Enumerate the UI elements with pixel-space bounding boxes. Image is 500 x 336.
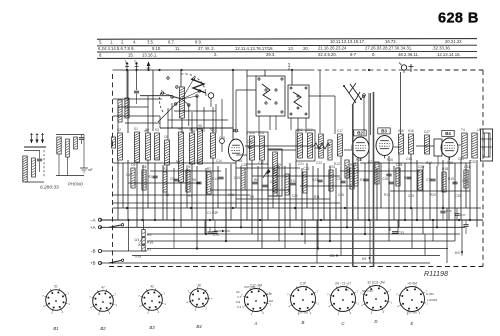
resistor R2 [131, 168, 135, 188]
wire aerial web3 [118, 106, 148, 108]
capacitor C37 [456, 208, 458, 213]
wire deep v10 [316, 220, 318, 263]
capacitor C30 [37, 158, 42, 160]
resistor R4 [163, 172, 167, 192]
coil S4 [155, 133, 160, 160]
socket base B3 [142, 290, 163, 311]
svg-text:29.3.: 29.3. [266, 52, 275, 57]
svg-text:C17: C17 [258, 161, 264, 165]
wire mesh h1 [113, 162, 236, 164]
wire osc coupling [245, 145, 314, 147]
resistor R17 [418, 170, 422, 190]
svg-text:C9: C9 [170, 177, 174, 181]
svg-text:B5: B5 [330, 254, 335, 258]
capacitor C9 [173, 178, 178, 180]
svg-text:11.: 11. [175, 46, 181, 51]
svg-text:16.72.: 16.72. [385, 39, 397, 44]
capacitor C34 [389, 227, 391, 231]
capacitor C25 [340, 180, 345, 182]
wire deep v12 [225, 208, 227, 241]
svg-text:C8: C8 [142, 165, 146, 169]
svg-text:C49: C49 [408, 194, 414, 198]
svg-text:C25: C25 [336, 177, 342, 181]
coil S2 [135, 132, 140, 162]
capacitor C21 [290, 182, 295, 184]
svg-text:R16: R16 [404, 176, 410, 180]
wire wafer drop [269, 116, 271, 130]
coil L30 [23, 156, 27, 182]
wire bus screen [113, 207, 482, 209]
svg-text:R4: R4 [188, 194, 192, 198]
svg-text:32 (C11–3M: 32 (C11–3M [367, 280, 385, 284]
svg-text:C6: C6 [131, 163, 135, 167]
wire b2 feed pair [370, 93, 372, 135]
coil S16 [409, 134, 414, 154]
wire wafer feed [246, 76, 248, 135]
svg-text:42: 42 [150, 285, 154, 289]
svg-text:··: ·· [150, 297, 152, 301]
svg-text:6.24.4.14.5.6.7.8 9.: 6.24.4.14.5.6.7.8 9. [98, 46, 135, 51]
wire mesh h4 [252, 175, 340, 177]
svg-text:R5: R5 [186, 165, 190, 169]
wire bottom corner drop [304, 220, 306, 244]
svg-text:C21: C21 [298, 162, 304, 166]
wire deep v2 [284, 220, 286, 249]
wire wafer3 drop2 [275, 116, 277, 130]
svg-text:S12: S12 [297, 128, 303, 132]
wire deep v1 [257, 220, 259, 241]
svg-text:A: A [254, 321, 258, 326]
svg-text:TUS: TUS [134, 255, 142, 259]
wire switch web7 [191, 112, 193, 133]
chassis border top dashed [420, 69, 483, 71]
svg-text:+2M: +2M [267, 299, 273, 303]
capacitor C23 [317, 179, 322, 181]
svg-text:C32: C32 [470, 160, 476, 164]
wire mesh h2 [150, 170, 221, 172]
svg-text:13.: 13. [288, 46, 294, 51]
wire mesh h5 [340, 170, 420, 172]
resistor R14 [345, 160, 349, 178]
svg-text:R7: R7 [207, 167, 211, 171]
coil volume track [273, 152, 278, 192]
svg-text:E: E [411, 321, 414, 326]
switch cross marker [410, 64, 412, 72]
svg-text:6-7: 6-7 [350, 52, 357, 57]
svg-text:C30: C30 [426, 178, 432, 182]
svg-text:6.280:33: 6.280:33 [40, 185, 59, 191]
svg-text:S16: S16 [408, 129, 414, 133]
wire adaptor dash [43, 150, 45, 178]
trimmer C4 [208, 93, 214, 99]
coil S9 [211, 133, 216, 158]
svg-text:S8: S8 [198, 124, 202, 128]
svg-text:C17: C17 [337, 129, 343, 133]
resistor R6 [186, 170, 190, 192]
wire bus +B [100, 262, 430, 264]
svg-text:C22: C22 [303, 167, 309, 171]
coil S17 [425, 135, 430, 154]
wire switch link [171, 103, 173, 128]
svg-text:−A: −A [90, 217, 96, 222]
wire bus h1 [147, 233, 460, 235]
wire deep v4 [340, 208, 342, 256]
capacitor C29 [406, 176, 411, 178]
resistor R11 [303, 172, 307, 193]
wire switch web1 [160, 127, 233, 129]
svg-text:R20: R20 [430, 193, 436, 197]
svg-text:S6: S6 [178, 127, 182, 131]
svg-text:6.9: 6.9 [236, 300, 241, 304]
svg-text:C28: C28 [396, 163, 402, 167]
resistor R10 [285, 174, 289, 195]
svg-text:··: ·· [197, 295, 199, 299]
svg-text:9–9M: 9–9M [426, 292, 434, 296]
svg-text:.32.33.36.: .32.33.36. [432, 46, 451, 51]
wiper arrow volume [263, 170, 268, 178]
capacitor C38 [465, 220, 467, 224]
svg-text:S9: S9 [201, 129, 205, 133]
svg-text:R16: R16 [147, 241, 153, 245]
svg-text:4·7: 4·7 [237, 295, 242, 299]
resistor R18 [442, 172, 446, 192]
wire mesh h9 [210, 189, 290, 191]
svg-text:C23: C23 [316, 161, 322, 165]
capacitor C41 [386, 173, 391, 175]
svg-text:22.4.5.20.: 22.4.5.20. [318, 52, 337, 57]
resistor R31 [66, 139, 70, 157]
svg-text:C31: C31 [458, 157, 464, 161]
wire switch drop b [291, 70, 293, 85]
coil S15 [399, 134, 404, 154]
svg-text:C12: C12 [196, 159, 202, 163]
resistor R21 [328, 140, 332, 160]
capacitor C36 [442, 213, 444, 220]
wire switch web6 [167, 108, 169, 140]
wire top drops2 [246, 70, 248, 76]
socket plug A [245, 289, 268, 312]
svg-text:8.: 8. [99, 52, 103, 57]
wire switch bus [232, 70, 234, 140]
wire deep v5 [397, 220, 399, 234]
wire aerial web5 [147, 96, 149, 133]
svg-text:27. W. 2.: 27. W. 2. [198, 46, 215, 51]
svg-text:R15: R15 [387, 158, 393, 162]
svg-text:1.: 1. [110, 40, 114, 45]
svg-text:B4: B4 [445, 131, 451, 136]
svg-text:4.: 4. [133, 40, 137, 45]
svg-text:15.: 15. [128, 52, 134, 57]
resistor R19 [464, 170, 468, 188]
svg-text:mF: mF [88, 168, 93, 172]
wire mesh h8 [128, 182, 200, 184]
resistor R24 zigzag [314, 143, 330, 149]
pilot lamp [401, 65, 406, 70]
svg-text:T4: T4 [461, 128, 465, 132]
svg-text:6.7.: 6.7. [168, 39, 175, 44]
wire long v2 [334, 96, 336, 134]
svg-text:C47: C47 [424, 130, 430, 134]
svg-text:R18: R18 [442, 167, 448, 171]
coil S5 [165, 140, 170, 165]
wire deep v7 [432, 220, 434, 241]
capacitor C14 [218, 176, 223, 178]
wire bus h2 [147, 240, 455, 242]
capacitor C40 can [434, 139, 442, 156]
svg-text:B1: B1 [53, 326, 59, 331]
wire deep v3 [329, 208, 331, 241]
coil S6 [179, 132, 184, 182]
svg-text:R9: R9 [250, 195, 254, 199]
wire switch web3 [174, 110, 216, 112]
wire link band2 [268, 149, 296, 151]
coil S7 [190, 133, 195, 164]
svg-text:2.: 2. [121, 40, 125, 45]
coil S13 [308, 133, 313, 158]
wire bus -A [100, 219, 483, 221]
band switch wafer S4 [288, 85, 309, 118]
svg-text:C26: C26 [338, 193, 344, 197]
svg-text:2.: 2. [214, 52, 218, 57]
wire switch drop a [264, 70, 266, 76]
socket base B4 [190, 289, 209, 308]
svg-text:8 9.: 8 9. [195, 39, 202, 44]
capacitor C10 [248, 145, 252, 147]
wire link band4 [344, 149, 352, 151]
svg-text:3.5.: 3.5. [147, 40, 154, 45]
svg-text:10.11.12.13.19.17.: 10.11.12.13.19.17. [330, 39, 365, 44]
wire mesh h3 [236, 167, 300, 169]
coil S10 [250, 136, 255, 160]
svg-text:R14: R14 [360, 178, 366, 182]
svg-text:R10: R10 [290, 179, 296, 183]
svg-text:R12: R12 [334, 162, 340, 166]
capacitor C28 [388, 181, 393, 183]
chassis border bottom dashed [109, 266, 483, 268]
wire bus h3 [147, 248, 448, 250]
wire link band1 [236, 154, 247, 156]
svg-text:C10: C10 [247, 140, 253, 144]
svg-text:R11: R11 [314, 195, 320, 199]
svg-text:C97–3M: C97–3M [244, 285, 256, 289]
tuning gang link [344, 86, 356, 103]
svg-text:LU–3M: LU–3M [298, 311, 308, 315]
coil L31 [57, 137, 61, 154]
svg-text:B2: B2 [100, 326, 106, 331]
wire deep v11 [204, 220, 206, 234]
svg-text:+A: +A [90, 225, 96, 230]
svg-text:C23: C23 [312, 178, 318, 182]
svg-text:S15: S15 [398, 129, 404, 133]
wire aerial web2 [125, 122, 160, 124]
svg-text:C1P: C1P [300, 281, 306, 285]
wire long v1 [319, 70, 321, 133]
socket plug D [364, 286, 389, 311]
wire top rail dotted [310, 69, 420, 71]
svg-text:C37: C37 [460, 213, 466, 217]
svg-text:R6: R6 [192, 178, 196, 182]
svg-text:2A · C1–27: 2A · C1–27 [335, 281, 351, 285]
coil S3 [146, 133, 151, 160]
socket base B1 [46, 290, 67, 311]
svg-text:C1 C3P: C1 C3P [207, 211, 218, 215]
svg-text:2A: 2A [236, 290, 240, 294]
svg-text:20.21.22.: 20.21.22. [445, 39, 463, 44]
svg-text:C14: C14 [216, 159, 222, 163]
tube B3 ABC1 [376, 136, 393, 156]
wire bus +A [100, 226, 465, 228]
wire link band7 [458, 144, 461, 146]
svg-text:C33: C33 [398, 231, 404, 235]
capacitor C31a [452, 181, 457, 183]
band switch wafer S3 [256, 76, 285, 116]
svg-text:I–002M: I–002M [427, 298, 438, 302]
coil S11 [260, 136, 265, 160]
svg-text:21.16.26.23.24: 21.16.26.23.24 [318, 46, 347, 51]
wire wafer3 drop1 [258, 116, 260, 136]
wire deep v6 [411, 208, 413, 249]
svg-text:C48: C48 [406, 157, 412, 161]
capacitor C1 [134, 90, 139, 92]
svg-text:S10: S10 [249, 131, 255, 135]
svg-text:628 B: 628 B [438, 11, 479, 27]
svg-text:13.16.1.: 13.16.1. [142, 52, 157, 57]
earth terminal [148, 62, 150, 70]
wire aerial web4 [117, 107, 119, 133]
wire switch web2 [168, 119, 228, 121]
svg-text:R11198: R11198 [424, 269, 448, 278]
wire -B stub [102, 250, 147, 252]
svg-text:··: ·· [301, 296, 303, 300]
svg-text:−B: −B [90, 249, 96, 254]
wire wafer link [236, 89, 256, 91]
wire deep v9 [461, 220, 463, 256]
svg-text:C31: C31 [464, 165, 470, 169]
socket base B2 [93, 291, 114, 312]
tube B1 AK2 [229, 139, 244, 161]
wire wafer4 drop2 [305, 118, 307, 133]
coil S12 [298, 133, 303, 158]
svg-text:48.2.39.11.: 48.2.39.11. [398, 52, 419, 57]
resistor R13 [350, 168, 354, 189]
capacitor C30a [430, 178, 435, 180]
wire vertical comb [117, 160, 119, 220]
wire link band3 [315, 147, 321, 149]
svg-text:6.3: 6.3 [237, 305, 242, 309]
wire bus h4 [132, 255, 440, 257]
output transformer T4 primary [462, 133, 467, 158]
capacitor C31 [79, 137, 84, 139]
svg-text:27.26.93.28.27.30.34.31.: 27.26.93.28.27.30.34.31. [365, 46, 412, 51]
svg-text:R15: R15 [384, 193, 390, 197]
capacitor C27 [363, 178, 368, 180]
band switch wafer S1 fan [181, 74, 206, 96]
tube B4 AL4 [441, 138, 458, 157]
svg-text:R3: R3 [176, 160, 180, 164]
svg-text:S11: S11 [259, 131, 265, 135]
wire switch web5 [221, 99, 223, 133]
svg-text:C35: C35 [455, 194, 461, 198]
resistor R12 [329, 170, 333, 191]
tube B2 AF3 [352, 137, 369, 158]
wire mesh h7 [390, 190, 470, 192]
socket plug B [291, 287, 316, 312]
resistor R22 cathode [354, 163, 358, 186]
capacitor C12 [196, 181, 201, 183]
scan fold mark right [373, 92, 375, 267]
svg-text:S13: S13 [307, 128, 313, 132]
svg-text:··: ·· [410, 296, 412, 300]
svg-text:R8: R8 [254, 178, 258, 182]
svg-text:C39: C39 [462, 179, 468, 183]
loudspeaker [481, 129, 493, 161]
svg-text:R2: R2 [148, 175, 152, 179]
wire aerial web1 [113, 115, 160, 117]
switch U1 mains [109, 225, 121, 227]
svg-text:B3: B3 [381, 129, 387, 134]
volume control box [268, 149, 282, 196]
svg-text:9.10.: 9.10. [152, 46, 161, 51]
coil S2 switch centre [180, 87, 185, 118]
capacitor C7 [152, 175, 157, 177]
svg-text:··: ·· [254, 297, 256, 301]
resistor R7 [207, 172, 211, 194]
socket plug E [400, 287, 425, 312]
wire aerial drop T2 [136, 70, 138, 90]
svg-text:12.11.4.13.76.17/18.: 12.11.4.13.76.17/18. [235, 46, 274, 51]
resistor R32 [74, 137, 78, 149]
svg-text:R1: R1 [147, 248, 151, 252]
node top rail right [368, 69, 370, 71]
svg-text:S3: S3 [155, 128, 159, 132]
chassis border left dashed [112, 74, 114, 266]
svg-text:5.: 5. [99, 40, 103, 45]
svg-text:··: ·· [54, 297, 56, 301]
wire link band6 [416, 145, 434, 147]
output transformer T4 secondary [472, 133, 477, 158]
svg-text:B4: B4 [196, 324, 202, 329]
wire switch web8 [203, 107, 205, 129]
wire aerial drop T1 [126, 70, 128, 98]
aerial adaptor arrows [31, 133, 33, 143]
svg-text:C15: C15 [234, 176, 240, 180]
wire AVC line [113, 194, 251, 196]
resistor R8 [241, 168, 245, 190]
ground phono [80, 167, 88, 169]
resistor R3 [142, 170, 146, 190]
resistor R16 [396, 168, 400, 186]
wire phono top [56, 134, 84, 136]
svg-text:38: 38 [197, 284, 201, 288]
svg-text:C5: C5 [145, 128, 149, 132]
capacitor C19 [262, 184, 267, 186]
wire mesh h10 [300, 185, 352, 187]
svg-text:C16: C16 [219, 136, 225, 140]
wire lamp drop [400, 72, 402, 134]
svg-text:··: ·· [341, 296, 343, 300]
wire mesh h6 [360, 162, 470, 164]
wire mesh h11 [236, 198, 330, 200]
socket plug C [331, 287, 356, 312]
svg-text:K9: K9 [455, 251, 460, 255]
chassis border right dashed [482, 70, 484, 267]
IF can outline T2 [247, 132, 268, 164]
svg-text:+9–9M: +9–9M [407, 281, 417, 285]
wire deep v13 [173, 220, 175, 249]
svg-text:R8: R8 [238, 159, 242, 163]
svg-text:C4P: C4P [266, 292, 272, 296]
svg-text:12.13.14.15.: 12.13.14.15. [437, 52, 461, 57]
